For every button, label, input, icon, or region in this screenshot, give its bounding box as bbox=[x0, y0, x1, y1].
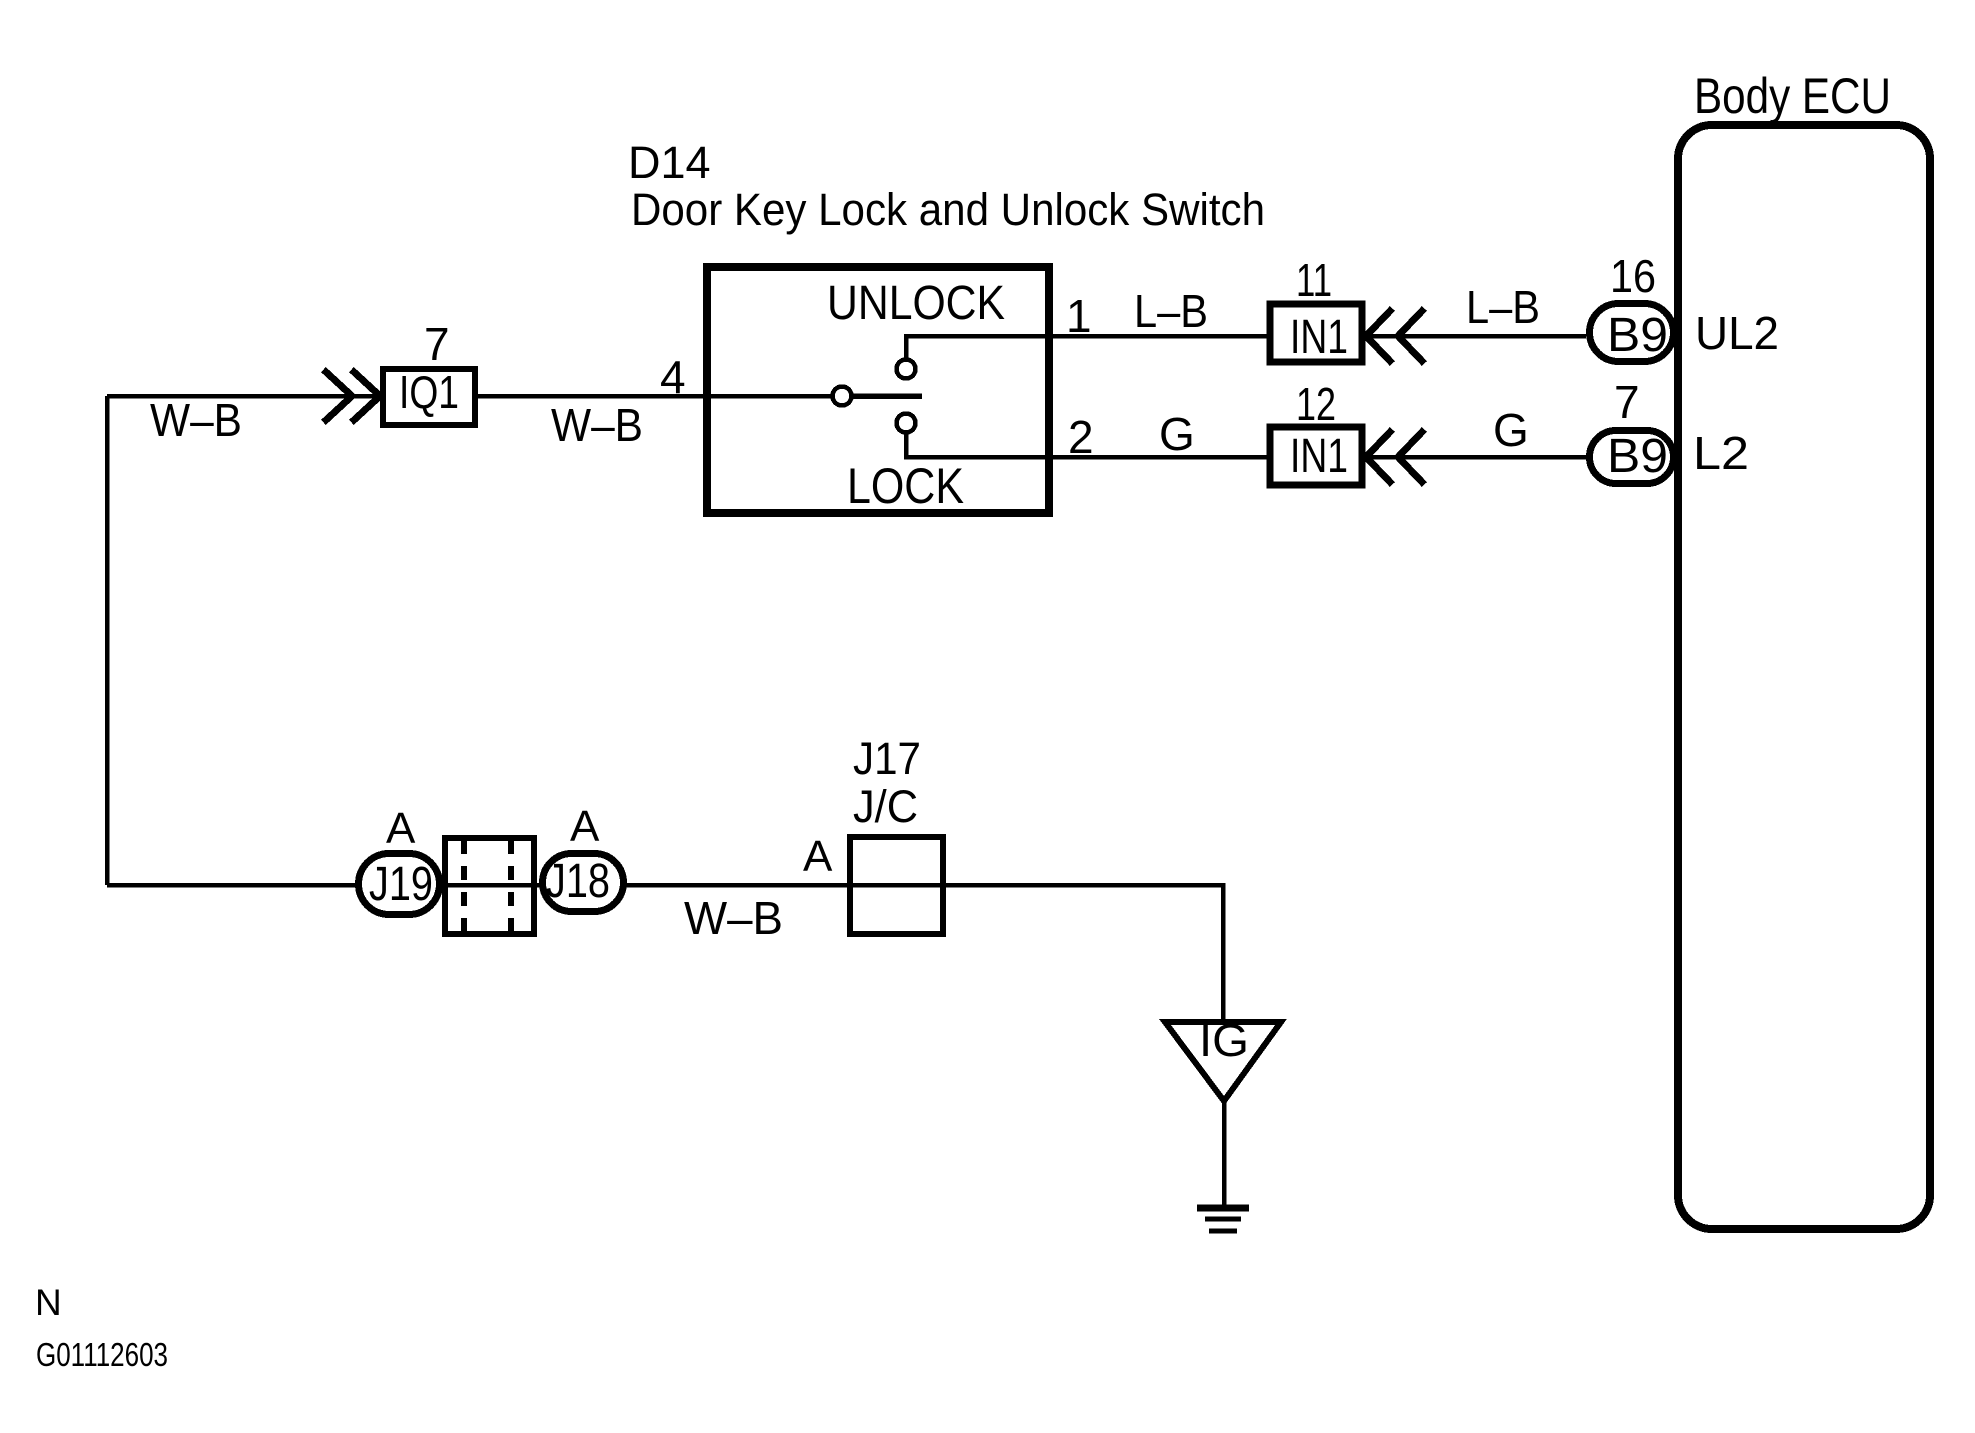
svg-text:G: G bbox=[1159, 408, 1195, 460]
wire IN1 to B9 lower bbox=[1366, 455, 1586, 460]
svg-text:W–B: W–B bbox=[150, 394, 242, 446]
svg-text:1: 1 bbox=[1066, 290, 1092, 342]
wire IN1 to B9 upper bbox=[1366, 334, 1586, 339]
connector block between J19 and J18 bbox=[445, 838, 534, 934]
svg-text:W–B: W–B bbox=[684, 892, 783, 944]
svg-text:IN1: IN1 bbox=[1290, 430, 1348, 483]
svg-text:A: A bbox=[570, 802, 600, 851]
svg-text:J17: J17 bbox=[853, 733, 921, 784]
svg-text:4: 4 bbox=[660, 351, 686, 403]
connector arrows into IQ1 bbox=[326, 372, 380, 420]
svg-text:J18: J18 bbox=[546, 855, 610, 908]
svg-text:UL2: UL2 bbox=[1695, 307, 1779, 359]
wire triangle to ground bbox=[1222, 1101, 1227, 1205]
wire common into switch bbox=[707, 394, 832, 399]
connector J19 bbox=[359, 854, 440, 915]
svg-text:J19: J19 bbox=[369, 858, 433, 911]
svg-text:J/C: J/C bbox=[853, 781, 918, 832]
svg-text:Door Key Lock and Unlock Switc: Door Key Lock and Unlock Switch bbox=[631, 184, 1265, 235]
svg-text:7: 7 bbox=[424, 318, 450, 370]
ground bbox=[1197, 1205, 1249, 1212]
svg-text:UNLOCK: UNLOCK bbox=[827, 277, 1005, 330]
svg-text:B9: B9 bbox=[1607, 430, 1668, 483]
wire contact to pin1 bbox=[906, 336, 1267, 359]
svg-text:IN1: IN1 bbox=[1290, 311, 1348, 364]
svg-text:L–B: L–B bbox=[1466, 281, 1540, 333]
dashed line in block bbox=[508, 840, 514, 934]
svg-text:B9: B9 bbox=[1607, 309, 1668, 362]
switch blade bbox=[853, 393, 922, 399]
svg-text:16: 16 bbox=[1610, 250, 1656, 302]
svg-text:Body ECU: Body ECU bbox=[1694, 68, 1891, 124]
connector IQ1 bbox=[383, 369, 475, 425]
connector B9 pin 16 bbox=[1590, 304, 1674, 362]
junction IN1 (12) bbox=[1270, 427, 1362, 485]
ground triangle IG bbox=[1165, 1022, 1281, 1101]
Body ECU box bbox=[1678, 125, 1930, 1229]
switch common contact bbox=[833, 387, 852, 406]
svg-text:A: A bbox=[803, 832, 833, 881]
svg-text:12: 12 bbox=[1296, 378, 1336, 430]
wire W-B from IQ1 to switch bbox=[478, 394, 707, 399]
switch unlock contact bbox=[897, 360, 916, 379]
wire contact to pin2 bbox=[906, 433, 1267, 457]
svg-text:IQ1: IQ1 bbox=[399, 366, 459, 418]
svg-text:2: 2 bbox=[1068, 411, 1094, 463]
svg-text:N: N bbox=[35, 1282, 62, 1323]
svg-text:L2: L2 bbox=[1693, 427, 1749, 479]
connector J18 bbox=[543, 854, 624, 912]
wire W-B left vertical bbox=[105, 396, 110, 885]
switch lock contact bbox=[897, 414, 916, 433]
connector arrows into IN1 lower bbox=[1366, 432, 1422, 482]
svg-text:IG: IG bbox=[1199, 1015, 1249, 1066]
svg-text:LOCK: LOCK bbox=[847, 458, 964, 514]
connector arrows into IN1 upper bbox=[1366, 311, 1422, 361]
svg-text:D14: D14 bbox=[628, 137, 711, 188]
svg-text:L–B: L–B bbox=[1134, 285, 1208, 337]
junction J17 box bbox=[850, 837, 943, 934]
switch D14 box bbox=[707, 267, 1049, 513]
svg-text:G: G bbox=[1493, 404, 1529, 456]
svg-text:A: A bbox=[386, 804, 416, 853]
svg-text:W–B: W–B bbox=[551, 399, 643, 451]
junction IN1 (11) bbox=[1270, 304, 1362, 362]
svg-text:G01112603: G01112603 bbox=[36, 1336, 168, 1373]
connector B9 pin 7 bbox=[1590, 431, 1674, 484]
svg-text:11: 11 bbox=[1296, 254, 1332, 306]
wire W-B top horizontal to IQ1 bbox=[107, 394, 380, 399]
dashed line in block bbox=[461, 840, 467, 934]
svg-text:7: 7 bbox=[1614, 376, 1640, 428]
wire W-B bottom horizontal bbox=[107, 885, 1223, 1021]
